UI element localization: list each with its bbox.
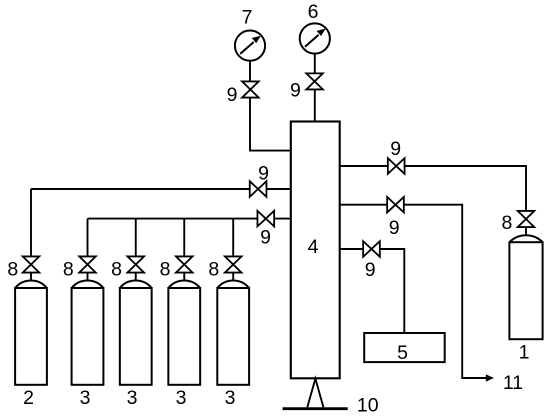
- svg-text:3: 3: [176, 387, 187, 409]
- svg-text:7: 7: [242, 7, 253, 29]
- svg-text:2: 2: [23, 387, 34, 409]
- svg-text:1: 1: [519, 342, 530, 364]
- svg-text:9: 9: [258, 163, 269, 185]
- svg-text:8: 8: [111, 259, 122, 281]
- svg-text:5: 5: [397, 342, 408, 364]
- svg-text:8: 8: [502, 212, 513, 234]
- svg-text:11: 11: [503, 372, 523, 394]
- svg-text:8: 8: [208, 259, 219, 281]
- svg-text:10: 10: [357, 394, 379, 416]
- svg-text:9: 9: [290, 80, 301, 102]
- svg-text:9: 9: [390, 138, 401, 160]
- svg-text:8: 8: [7, 259, 18, 281]
- svg-text:8: 8: [160, 259, 171, 281]
- svg-text:9: 9: [389, 217, 400, 239]
- svg-text:3: 3: [80, 387, 91, 409]
- svg-text:9: 9: [365, 259, 376, 281]
- svg-text:9: 9: [260, 227, 271, 249]
- svg-text:6: 6: [308, 1, 319, 23]
- svg-text:3: 3: [225, 387, 236, 409]
- svg-text:9: 9: [227, 84, 238, 106]
- svg-text:4: 4: [308, 236, 319, 258]
- svg-text:3: 3: [127, 387, 138, 409]
- svg-text:8: 8: [63, 259, 74, 281]
